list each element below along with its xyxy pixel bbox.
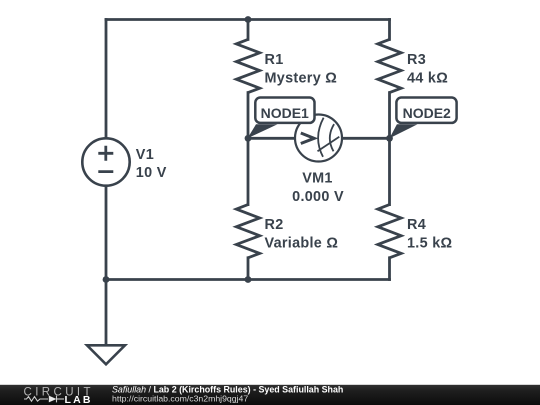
wire R2 bottom lead xyxy=(247,258,250,280)
resistor R1 xyxy=(236,39,259,92)
svg-text:NODE1: NODE1 xyxy=(261,105,309,121)
svg-text:0.000 V: 0.000 V xyxy=(292,189,344,205)
ground xyxy=(87,345,125,364)
wire voltmeter right xyxy=(342,137,390,140)
resistor R4 xyxy=(378,205,401,258)
svg-text:1.5 kΩ: 1.5 kΩ xyxy=(407,236,452,252)
wire R1 bottom lead xyxy=(247,93,250,139)
svg-text:R2: R2 xyxy=(265,217,284,233)
R2 labels xyxy=(265,217,339,252)
voltage source V1 xyxy=(82,138,129,185)
svg-text:NODE2: NODE2 xyxy=(403,105,451,121)
node NODE1 callout xyxy=(248,98,315,139)
svg-text:R4: R4 xyxy=(407,217,426,233)
svg-text:VM1: VM1 xyxy=(302,170,333,186)
svg-text:http://circuitlab.com/c3n2mhj9: http://circuitlab.com/c3n2mhj9qgj47 xyxy=(112,394,248,404)
wire bottom horizontal xyxy=(106,278,390,281)
node dot middle left (NODE1 anchor) xyxy=(245,135,252,142)
node NODE2 callout xyxy=(390,98,457,139)
wire R2 top lead xyxy=(247,138,250,204)
node dot bottom middle xyxy=(245,276,252,283)
svg-text:V1: V1 xyxy=(136,147,154,163)
resistor R2 xyxy=(236,205,259,258)
node dot top middle xyxy=(245,16,252,23)
svg-text:10 V: 10 V xyxy=(136,165,167,181)
R3 labels xyxy=(407,52,448,87)
wire left vertical lower xyxy=(105,186,108,280)
wire R4 top lead xyxy=(388,138,391,204)
wire R3 bottom lead xyxy=(388,93,391,139)
R1 labels xyxy=(265,52,338,87)
wire ground stem xyxy=(105,280,108,346)
wire top horizontal xyxy=(106,18,390,21)
V1 labels xyxy=(136,147,167,181)
wire left vertical upper xyxy=(105,20,108,139)
svg-text:LAB: LAB xyxy=(65,394,93,405)
wire right vertical top lead xyxy=(388,20,391,40)
wire middle top lead xyxy=(247,20,250,40)
node dot bottom left xyxy=(103,276,110,283)
svg-text:44 kΩ: 44 kΩ xyxy=(407,71,448,87)
svg-text:R1: R1 xyxy=(265,52,284,68)
footer CircuitLab logo xyxy=(24,386,94,405)
voltmeter VM1 xyxy=(295,115,342,162)
resistor R3 xyxy=(378,39,401,92)
R4 labels xyxy=(407,217,452,252)
svg-text:Mystery Ω: Mystery Ω xyxy=(265,71,338,87)
wire voltmeter left xyxy=(248,137,295,140)
wire R4 bottom lead xyxy=(388,258,391,280)
svg-text:R3: R3 xyxy=(407,52,426,68)
svg-text:Variable Ω: Variable Ω xyxy=(265,236,339,252)
node dot middle right (NODE2 anchor) xyxy=(386,135,393,142)
VM1 labels xyxy=(292,170,344,205)
